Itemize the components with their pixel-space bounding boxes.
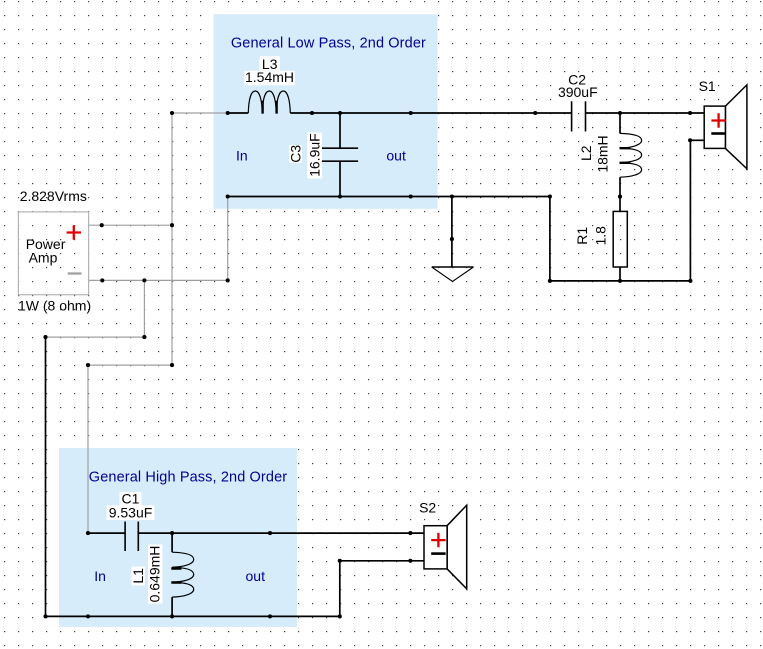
wire: up to S2 minus <box>339 561 341 617</box>
svg-text:R1: R1 <box>574 227 590 245</box>
label background C1 <box>120 492 142 506</box>
wire: amp plus pin to vertical feed <box>89 224 172 226</box>
speaker S2 <box>424 505 467 589</box>
label background L1 <box>132 567 146 586</box>
svg-text:L1: L1 <box>130 568 146 584</box>
capacitor C3 stem top <box>339 113 341 148</box>
svg-text:General High Pass, 2nd Order: General High Pass, 2nd Order <box>89 469 287 485</box>
wire: feed to low pass In <box>172 112 228 114</box>
svg-text:1W (8 ohm): 1W (8 ohm) <box>18 298 91 314</box>
svg-text:out: out <box>246 568 266 584</box>
block background: General Low Pass <box>214 14 438 209</box>
svg-text:1.8: 1.8 <box>593 226 609 246</box>
block background: General High Pass <box>59 448 297 627</box>
svg-text:Amp: Amp <box>29 249 58 265</box>
wire: bottom rail to S1 minus <box>550 280 691 282</box>
svg-text:S1: S1 <box>699 78 716 94</box>
svg-text:16.9uF: 16.9uF <box>306 133 322 177</box>
junction dots feed nets <box>43 223 229 367</box>
svg-text:0.649mH: 0.649mH <box>147 546 163 603</box>
label background 1.54mH <box>244 71 294 86</box>
wire: amp minus pin horizontal <box>89 279 228 281</box>
svg-text:1.54mH: 1.54mH <box>245 69 294 85</box>
wire: plus feed down to high pass In <box>87 365 89 533</box>
capacitor C1 <box>125 522 138 552</box>
wire: plus feed to high pass horizontal <box>88 364 172 366</box>
wire: L3 to C2 <box>290 112 571 114</box>
svg-text:S2: S2 <box>419 500 436 516</box>
svg-text:L2: L2 <box>578 145 594 161</box>
capacitor C3 stem bottom <box>339 161 341 196</box>
speaker S1 <box>704 85 747 169</box>
power amp minus mark <box>68 272 82 274</box>
wire: low pass In to L3 <box>228 112 249 114</box>
label background S1 <box>698 81 717 95</box>
junction dots top rail <box>170 111 692 142</box>
wire: L1 to bottom rail <box>171 597 173 616</box>
wire: C1 to speaker S2 <box>138 532 424 534</box>
svg-text:In: In <box>236 147 248 163</box>
junction dots high pass <box>43 531 412 618</box>
label background 0.649mH <box>148 545 163 604</box>
label background 1.8 <box>594 226 608 247</box>
wire: plus feed vertical <box>171 113 173 365</box>
label background S2 <box>418 502 437 516</box>
power amp plus mark <box>67 225 81 239</box>
wire: ground stem <box>451 197 453 267</box>
svg-text:9.53uF: 9.53uF <box>109 504 153 520</box>
wire: up to S1 minus <box>689 140 691 281</box>
label background C2 <box>566 73 589 88</box>
wire: low pass bottom rail <box>228 196 550 198</box>
wire: S2 minus stub <box>340 560 424 562</box>
inductor L1 <box>172 552 194 597</box>
ground <box>432 267 474 282</box>
junction dots low pass bottom rail <box>226 194 693 283</box>
label background 9.53uF <box>107 506 155 521</box>
inductor L3 <box>248 91 290 113</box>
svg-text:2.828Vrms: 2.828Vrms <box>20 188 87 204</box>
svg-text:390uF: 390uF <box>558 84 598 100</box>
wire: minus up to low pass ground <box>227 197 229 281</box>
wire: minus branch left <box>46 336 145 338</box>
label background R1 <box>576 225 589 247</box>
wire: R1 to bottom <box>619 267 621 281</box>
label background 16.9uF <box>307 133 322 179</box>
wire: S1 minus stub <box>690 139 704 141</box>
inductor L2 <box>620 133 642 177</box>
capacitor C3 <box>320 148 358 161</box>
wire: high pass bottom rail <box>46 615 340 617</box>
resistor R1 <box>613 211 627 267</box>
wire: minus branch down <box>143 280 145 337</box>
wire: L1 top stub <box>171 533 173 552</box>
capacitor C2 <box>572 101 586 132</box>
label background 18mH <box>596 134 611 174</box>
svg-text:In: In <box>94 568 106 584</box>
label background L3 <box>260 56 281 71</box>
wire: C2 to speaker S1 <box>586 112 705 114</box>
wire: L2 top stub <box>619 113 621 133</box>
label background 390uF <box>556 85 600 102</box>
label background C3 <box>289 145 302 163</box>
wire: rail down right <box>549 197 551 281</box>
svg-text:C3: C3 <box>288 145 304 163</box>
label background L2 <box>579 143 593 164</box>
wire: L2 to R1 <box>619 177 621 211</box>
svg-text:18mH: 18mH <box>595 135 611 172</box>
svg-text:General Low Pass, 2nd Order: General Low Pass, 2nd Order <box>231 35 426 51</box>
svg-text:out: out <box>386 147 406 163</box>
power amp V1 <box>18 212 88 295</box>
wire: high pass In to C1 <box>88 532 125 534</box>
wire: left return vertical <box>45 337 47 616</box>
